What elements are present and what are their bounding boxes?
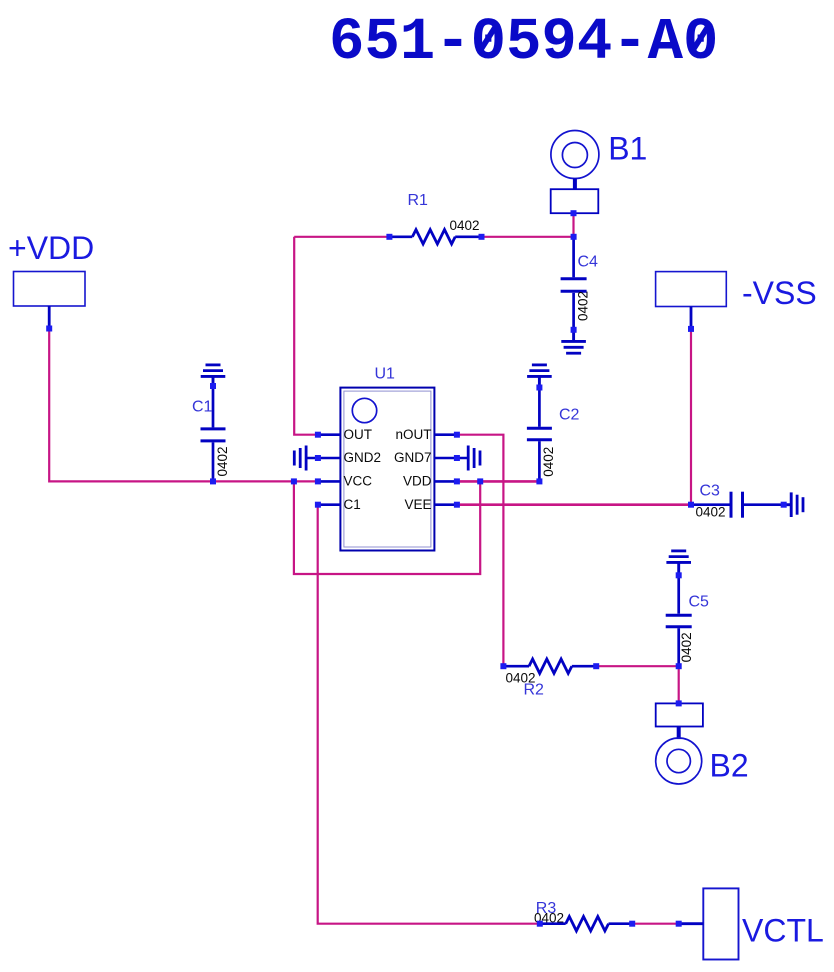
node VCC pin: [315, 478, 321, 484]
U1 pin OUT: [318, 427, 372, 442]
capacitor C5: [666, 575, 709, 666]
resistor R2: [503, 659, 596, 699]
port -VSS: [656, 272, 817, 329]
svg-text:651-0594-A0: 651-0594-A0: [329, 9, 718, 76]
svg-text:B2: B2: [710, 748, 749, 784]
node R1 left: [386, 234, 392, 240]
node C1 top: [210, 383, 216, 389]
svg-text:C4: C4: [578, 254, 599, 271]
wire -VSS down to C3 node: [690, 329, 692, 505]
ground right of C3: [784, 492, 803, 517]
node C1 pin: [315, 502, 321, 508]
capacitor C1: [192, 386, 230, 481]
wire VEE to C3 node: [457, 503, 691, 506]
U1 pin C1: [318, 497, 361, 512]
node OUT pin: [315, 432, 321, 438]
wire nOUT to R2 left: [457, 435, 504, 667]
U1 pin VDD: [403, 474, 457, 489]
node C3 right: [781, 502, 787, 508]
U1 pin GND7: [394, 450, 468, 465]
node C4 bottom: [571, 327, 577, 333]
ground above C2: [527, 365, 552, 388]
svg-text:nOUT: nOUT: [395, 427, 431, 442]
svg-text:GND7: GND7: [394, 450, 432, 465]
capacitor C2: [527, 388, 580, 482]
node R3 left: [537, 921, 543, 927]
wire loop VDD to VCC under U1: [294, 481, 480, 574]
connector B1: [551, 131, 648, 214]
ground at GND2: [294, 446, 306, 471]
wire C5 node to B2: [678, 666, 680, 703]
wire R1 left to node: [294, 236, 389, 238]
node GND7 pin: [454, 455, 460, 461]
svg-text:B1: B1: [608, 131, 647, 167]
resistor R3: [534, 900, 632, 931]
title 651-0594-A0: [329, 9, 718, 76]
capacitor C3: [691, 483, 784, 520]
node R1 right: [479, 234, 485, 240]
wire R1 right to C4 node: [482, 236, 574, 238]
svg-text:0402: 0402: [541, 447, 556, 477]
node C3 junction: [688, 502, 694, 508]
U1 pin GND2: [306, 450, 381, 465]
node R3 right: [629, 921, 635, 927]
node -VSS pin: [688, 326, 694, 332]
node R2 right: [593, 663, 599, 669]
svg-text:R2: R2: [524, 682, 545, 699]
svg-text:0402: 0402: [450, 218, 480, 233]
port +VDD: [8, 230, 94, 329]
node C4 top junction: [571, 234, 577, 240]
node C5 top: [676, 572, 682, 578]
svg-text:C3: C3: [700, 483, 721, 500]
svg-text:U1: U1: [375, 366, 396, 383]
op-amp U1: [340, 366, 434, 551]
svg-text:C5: C5: [689, 594, 710, 611]
ground above C5: [666, 551, 691, 575]
node VCC junction: [291, 478, 297, 484]
svg-text:VDD: VDD: [403, 474, 432, 489]
node R2 left: [500, 663, 506, 669]
svg-text:C2: C2: [559, 407, 580, 424]
connector B2: [656, 703, 749, 784]
node nOUT pin: [454, 432, 460, 438]
node VCTL pin: [676, 921, 682, 927]
ground at GND7: [468, 446, 480, 471]
wire R2 right to C5 node: [596, 665, 679, 667]
node GND2 pin: [315, 455, 321, 461]
wire B1 to C4 node: [572, 213, 574, 237]
wire C1 pin of U1 down to R3 left: [318, 505, 540, 924]
junction squares: [46, 210, 787, 927]
port VCTL: [679, 888, 824, 959]
capacitor C4: [561, 237, 598, 330]
svg-text:-VSS: -VSS: [742, 275, 817, 311]
svg-text:C1: C1: [344, 497, 361, 512]
resistor R1: [389, 192, 481, 244]
wire VDD to C2 bottom: [457, 480, 540, 483]
svg-text:C1: C1: [192, 399, 213, 416]
node C2 top: [536, 385, 542, 391]
svg-text:VCC: VCC: [344, 474, 373, 489]
node VDD pin: [454, 478, 460, 484]
ground above C1: [201, 365, 226, 388]
node +VDD pin: [46, 326, 52, 332]
svg-text:0402: 0402: [696, 505, 726, 520]
svg-text:VEE: VEE: [404, 497, 431, 512]
node C2 bottom: [536, 478, 542, 484]
svg-text:0402: 0402: [215, 446, 230, 476]
wire R3 right to VCTL node: [632, 923, 679, 925]
node C1 bottom junction: [210, 478, 216, 484]
node B1 pin: [571, 210, 577, 216]
wire node to OUT pin: [294, 237, 318, 435]
U1 pin nOUT: [395, 427, 456, 442]
svg-text:OUT: OUT: [344, 427, 373, 442]
svg-text:VCTL: VCTL: [742, 913, 824, 949]
U1 pin VEE: [404, 497, 456, 512]
svg-text:R1: R1: [408, 192, 429, 209]
svg-text:0402: 0402: [576, 291, 591, 321]
svg-text:GND2: GND2: [344, 450, 382, 465]
svg-text:+VDD: +VDD: [8, 230, 94, 266]
wire +VDD to VCC row: [49, 330, 318, 481]
node B2 pin: [676, 700, 682, 706]
node VDD loop junction: [477, 478, 483, 484]
ground below C4: [561, 330, 586, 353]
node C5 bottom junction: [676, 663, 682, 669]
node VEE pin: [454, 502, 460, 508]
U1 pin VCC: [318, 474, 372, 489]
svg-text:0402: 0402: [679, 632, 694, 662]
